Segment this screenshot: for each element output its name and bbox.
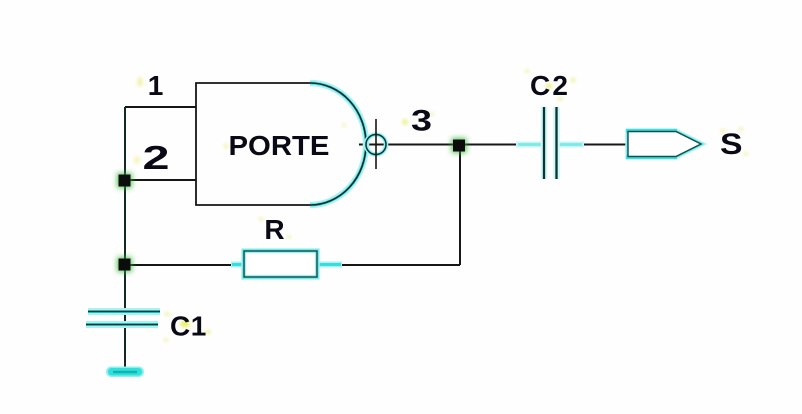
- node junction at output 3: [452, 138, 467, 153]
- pin 3 crosshair: [375, 119, 377, 169]
- ground: [106, 367, 144, 378]
- svg-text:2: 2: [143, 139, 170, 176]
- node junction at input 2: [117, 173, 132, 188]
- op-amp U1 gate PORTE body: [196, 83, 366, 205]
- connector S: [626, 131, 701, 157]
- wire output net 3: [359, 144, 628, 146]
- svg-text:C1: C1: [170, 311, 207, 342]
- inverter bubble on gate output: [366, 135, 386, 155]
- svg-text:R: R: [264, 214, 284, 245]
- resistor R: [231, 251, 342, 277]
- wire input 1: [125, 106, 196, 108]
- capacitor C1: [86, 312, 160, 325]
- svg-text:S: S: [720, 128, 743, 161]
- wire input 2: [125, 179, 196, 181]
- svg-text:1: 1: [148, 70, 164, 101]
- capacitor C2: [516, 107, 584, 179]
- wire right vertical feedback: [459, 145, 461, 265]
- svg-text:PORTE: PORTE: [229, 130, 330, 161]
- node junction at feedback corner: [117, 257, 132, 272]
- svg-text:3: 3: [411, 105, 432, 138]
- wire bottom feedback horizontal: [125, 264, 460, 266]
- svg-text:C2: C2: [530, 70, 570, 101]
- wire left vertical bus: [124, 107, 126, 368]
